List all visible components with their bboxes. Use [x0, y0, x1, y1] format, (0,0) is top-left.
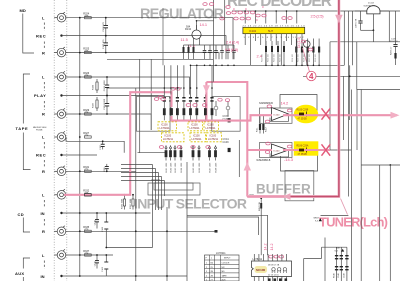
junction bus 52.6 — [79, 52, 81, 54]
resistor R139 — [93, 97, 99, 111]
resistor R109 — [262, 115, 267, 133]
IC100 label box row2 c3 — [207, 133, 222, 142]
resistor R329 476 — [83, 109, 91, 115]
junction bus y65 x204.5 — [204, 65, 206, 67]
resistor R138 — [93, 79, 99, 93]
svg-text:R162 1006: R162 1006 — [170, 162, 172, 173]
wire CD IN node — [62, 212, 151, 214]
junction bus y65 x222 — [221, 65, 223, 67]
junction x135.8 y231.3 — [135, 230, 137, 232]
svg-text:47 35/3B: 47 35/3B — [298, 119, 308, 121]
resistor body col 205 over pink — [204, 108, 207, 115]
resistor R136 — [122, 194, 126, 210]
svg-text:LC78211: LC78211 — [160, 127, 171, 130]
svg-text:14.2: 14.2 — [281, 101, 289, 106]
measure oval 25 — [265, 120, 269, 123]
IC100 label box row1 c3 — [204, 122, 219, 131]
tuner path halo — [247, 0, 339, 197]
IC102 pin wire 11 — [296, 34, 298, 41]
svg-text:MHCE01 5E04: MHCE01 5E04 — [33, 127, 47, 129]
measure oval 8 — [256, 14, 260, 17]
svg-text:R112: R112 — [266, 126, 268, 132]
capacitor C115 — [226, 45, 230, 59]
measure oval 5 — [234, 17, 238, 20]
circled number 4 — [307, 71, 316, 81]
IC102 pin wire 5 — [265, 34, 267, 41]
junction y11 x286 — [286, 10, 288, 12]
resistor array top R151 — [163, 95, 166, 121]
wire route vert x158.5 — [158, 173, 160, 211]
highlighted path CD L signal (wire) — [64, 92, 172, 195]
svg-text:-14.3: -14.3 — [284, 157, 293, 162]
svg-text:C107 470: C107 470 — [103, 39, 105, 49]
junction y11 x245 — [244, 10, 246, 12]
resistor array top R155 — [189, 95, 192, 121]
IC102 pin long wire 5 — [265, 41, 267, 65]
bracket AUX — [23, 258, 30, 281]
wire route y176.5 — [121, 176, 162, 178]
svg-text:C106 470: C106 470 — [103, 21, 105, 31]
svg-text:C137: C137 — [391, 39, 397, 41]
capacitor C124 1008 — [104, 95, 109, 115]
IC101 pin top 1 — [253, 254, 255, 261]
svg-text:REC DECODER: REC DECODER — [227, 0, 332, 10]
connector strip dotted line left — [53, 0, 55, 281]
svg-text:IC100: IC100 — [207, 124, 214, 127]
measure oval 26 — [266, 142, 270, 145]
wire vertical bus x80 — [79, 18, 81, 276]
resistor R325 476 — [83, 48, 91, 54]
blob under IC101 2 — [274, 278, 277, 281]
svg-text:R138: R138 — [93, 84, 95, 90]
svg-text:REC: REC — [36, 34, 46, 39]
capacitor C107 470 — [103, 35, 108, 54]
junction TAPE PLAY node — [60, 94, 62, 96]
highlighted mute box edge (wire) — [206, 82, 247, 197]
resistor array top R153 — [176, 95, 179, 121]
arrowhead output right — [391, 112, 400, 119]
svg-text:TAPE: TAPE — [222, 274, 228, 277]
resistor array top R154 — [182, 95, 185, 121]
svg-text:R: R — [42, 169, 45, 174]
op-amp U1 feedback loop upper — [280, 95, 317, 116]
junction TAPE REC node — [60, 154, 62, 156]
measure oval 19 — [159, 146, 163, 149]
wire vert x167 — [166, 207, 168, 281]
svg-text:C141: C141 — [102, 266, 104, 272]
IC101 pin bottom 4 — [267, 277, 269, 281]
highlighted path op-amp U1 output (wire) — [283, 114, 397, 116]
svg-text:R134: R134 — [185, 28, 192, 31]
wire array col x164.3 up — [163, 65, 165, 94]
measure oval 2 — [238, 11, 242, 14]
wire horiz y266.9 — [304, 258, 322, 260]
svg-text:R165 1006: R165 1006 — [193, 162, 195, 173]
svg-text:R164 1006: R164 1006 — [181, 162, 183, 173]
IC100 label box row2 c2 — [190, 133, 206, 142]
wire TAPE PLAY node — [62, 95, 165, 97]
wire route vert x164.5 — [164, 181, 166, 197]
wire TAPE PLAY L — [66, 77, 190, 95]
resistor R142 — [271, 41, 273, 65]
wire route y180.5 — [121, 180, 165, 182]
IC102 top pin wire 24 — [244, 11, 246, 24]
capacitor C117 470 — [100, 140, 105, 149]
transistor Q104 — [185, 25, 201, 45]
junction MD REC node — [60, 34, 62, 36]
svg-text:11.5: 11.5 — [181, 37, 188, 42]
wire horiz y180 — [151, 179, 160, 181]
capacitor C119 470 — [104, 164, 109, 172]
wire MD L — [66, 18, 233, 60]
wire horiz y20.8 — [197, 20, 214, 22]
svg-text:MD: MD — [222, 271, 226, 273]
junction AUX IN node — [60, 275, 62, 277]
wire vert rail 5 — [349, 65, 351, 120]
resistor R337 476 — [83, 250, 91, 256]
svg-text:R137 1006: R137 1006 — [130, 198, 132, 209]
resistor array mid R161 — [165, 145, 168, 172]
junction y11 x256 — [255, 10, 257, 12]
junction array col x177.4 — [177, 87, 179, 89]
capacitor C138 470 — [94, 212, 99, 228]
svg-text:C121 1008: C121 1008 — [104, 80, 106, 91]
measure oval 9 — [262, 14, 266, 17]
highlighted path light segment y196.5 — [247, 195, 284, 197]
IC101 pin top 8 — [286, 254, 288, 261]
svg-text:2C113: 2C113 — [368, 3, 375, 5]
wire vert x224.7 from top — [224, 0, 226, 45]
op-amp U1 feedback loop lower — [270, 115, 289, 121]
resistor R13x x183.5 — [183, 45, 185, 59]
wire horiz y247.5 — [106, 247, 152, 249]
dashed tie 4 — [43, 101, 45, 110]
dashed tie 1 — [43, 23, 45, 32]
svg-text:R167 1006: R167 1006 — [209, 162, 211, 173]
resistor R327 476 — [83, 132, 91, 138]
wire horiz y59.3 — [107, 58, 213, 60]
svg-text:C149: C149 — [344, 273, 346, 278]
svg-text:14 (2.4): 14 (2.4) — [297, 37, 301, 48]
junction bus y65 x296.3 — [296, 65, 298, 67]
svg-text:R122 100: R122 100 — [274, 54, 276, 62]
wire horiz y41.8 — [330, 41, 400, 43]
measure oval 22 — [206, 146, 210, 149]
IC101 pin top 6 — [276, 254, 278, 261]
X mark upper — [322, 108, 331, 119]
resistor array top R152 — [169, 95, 172, 121]
svg-text:LC78211: LC78211 — [190, 127, 201, 130]
IC101 pin top 4 — [267, 254, 269, 261]
svg-text:R: R — [42, 229, 45, 234]
selector sub box A — [148, 183, 200, 195]
measure oval 12 — [186, 104, 190, 107]
svg-text:LC78211: LC78211 — [192, 138, 203, 141]
bracket MD — [23, 14, 34, 54]
IC101 pin bottom 5 — [272, 277, 274, 281]
transistor Q107 — [304, 41, 311, 48]
resistor R127 — [318, 39, 320, 66]
wire route vert x161.5 — [161, 177, 163, 211]
op-amp U2 NJM2068D-B lower — [257, 144, 289, 162]
op IC102 regulator (yellow) — [243, 27, 305, 33]
tuner callout line — [341, 199, 348, 215]
dashed tie 3 — [43, 82, 45, 91]
svg-text:IC100: IC100 — [193, 135, 200, 138]
measure oval q107 a — [301, 40, 305, 43]
resistor R326 476 — [83, 72, 91, 78]
dashed tie 2 — [43, 42, 45, 50]
highlighted path op-amp U2 output (wire) — [283, 149, 330, 151]
svg-text:C119: C119 — [104, 166, 106, 172]
svg-text:R166 1006: R166 1006 — [199, 162, 201, 173]
wire horiz y64.8 main bus — [190, 64, 344, 66]
wire array col x183.9 up — [183, 65, 185, 94]
capacitor C487 — [356, 11, 375, 42]
svg-text:4.8 (4.8): 4.8 (4.8) — [225, 47, 239, 52]
ground marker WB27 — [314, 218, 323, 223]
IC100 label box row1 c1 — [158, 122, 177, 131]
resistor array mid R164 — [180, 145, 183, 172]
IC102 pin wire 8 — [280, 34, 282, 41]
resistor R335 476 — [83, 226, 91, 232]
arrowhead tuner down — [335, 15, 343, 23]
svg-text:L: L — [42, 15, 45, 20]
measure oval extra 5 — [209, 3, 213, 6]
svg-text:R121 100: R121 100 — [268, 54, 270, 62]
junction bus y65 x272 — [271, 65, 273, 67]
capacitor C116 — [232, 45, 236, 59]
jack MD R — [54, 47, 66, 57]
op-amp U1 NJM2068D-B upper — [259, 103, 289, 121]
wire vert x239.3 selector right — [238, 140, 240, 177]
junction x167 y276 — [166, 275, 168, 277]
jack MD L — [54, 12, 66, 22]
IC102 top pin wire 14 — [296, 11, 298, 24]
R106 C298 network — [297, 145, 309, 157]
junction bus y65 x302 — [301, 65, 303, 67]
IC102 top pin wire 22 — [255, 11, 257, 24]
jack TAPE PLAY R — [54, 108, 66, 118]
svg-text:R: R — [42, 50, 45, 55]
measure oval 30 — [274, 255, 278, 258]
wire array col x212.0 up — [211, 65, 213, 94]
svg-text:R105 C299: R105 C299 — [297, 110, 309, 112]
svg-text:NJM2068D-B: NJM2068D-B — [259, 103, 273, 105]
IC102 pin wire 10 — [291, 34, 293, 45]
IC101 pin bottom 1 — [253, 277, 255, 281]
svg-text:R123 100: R123 100 — [280, 54, 282, 62]
measure oval 27 — [287, 145, 291, 148]
resistor body col 171 over pink — [170, 108, 173, 115]
svg-text:L: L — [42, 75, 45, 80]
measure oval extra 6 — [282, 17, 286, 20]
svg-text:R126 100: R126 100 — [304, 54, 306, 62]
callout line circle 4 — [303, 48, 310, 72]
resistor R124 — [301, 39, 303, 66]
svg-text:12 13 14 15: 12 13 14 15 — [268, 275, 279, 277]
svg-text:IC100: IC100 — [191, 124, 198, 127]
connector strip dotted line right — [66, 0, 68, 281]
IC102 pin wire 1 — [244, 34, 246, 45]
measure oval 29 — [269, 255, 273, 258]
junction bus 255 — [79, 254, 81, 256]
IC102 top pin wire 20 — [265, 11, 267, 24]
capacitor C148 — [338, 247, 343, 281]
resistor R126 — [312, 39, 314, 66]
wire TAPE REC node — [62, 154, 98, 156]
wire vert x325 bottom — [324, 238, 326, 281]
measure oval 32 — [158, 95, 162, 98]
wire route y168.5 — [121, 168, 156, 170]
junction array col x170.9 — [170, 87, 172, 89]
wire route vert x155.5 — [155, 169, 157, 211]
resistor array top R158 — [210, 95, 213, 121]
IC101 pin top 5 — [272, 254, 274, 261]
svg-text:C487 1YR: C487 1YR — [356, 18, 358, 28]
junction x135.8 y213 — [135, 212, 137, 214]
highlighted mute box path (wire) — [205, 82, 207, 120]
resistor RA1 — [272, 268, 275, 273]
jack TAPE REC L — [54, 131, 66, 141]
measure oval 4 — [250, 11, 254, 14]
capacitor C108 — [223, 115, 231, 122]
IC102 pin long wire 11 — [296, 41, 298, 65]
junction bus y65 x210 — [209, 65, 211, 67]
wire vert x303.7 — [303, 259, 305, 281]
svg-text:IC100: IC100 — [274, 115, 281, 117]
resistor R201 — [250, 194, 262, 198]
wire transistor collector bus — [184, 44, 197, 46]
svg-text:WB27: WB27 — [314, 218, 320, 220]
junction bus y65 x228 — [227, 65, 229, 67]
IC102 pin wire 7 — [275, 34, 277, 45]
svg-text:R125 100: R125 100 — [298, 54, 300, 62]
svg-text:R163 1006: R163 1006 — [175, 162, 177, 173]
measure oval extra 4 — [203, 3, 207, 6]
transistor Q107 stub — [306, 47, 308, 65]
svg-text:2.4 (2.4): 2.4 (2.4) — [226, 40, 240, 45]
resistor array top R157 — [204, 95, 207, 121]
wire route y172.5 — [121, 172, 159, 174]
svg-text:5HT: 5HT — [268, 29, 273, 33]
svg-text:R128 100: R128 100 — [315, 54, 317, 62]
svg-text:R299 4.7: R299 4.7 — [391, 46, 393, 55]
resistor R106 body over pink — [299, 149, 304, 152]
component end CD R — [215, 230, 218, 233]
wire transistor top stub — [196, 21, 198, 30]
svg-text:REGULATOR: REGULATOR — [140, 7, 225, 23]
ground marker triangle — [335, 248, 345, 253]
wire vert rail 12 — [395, 11, 397, 42]
transistor Q115 — [214, 101, 218, 116]
bracket TAPE — [23, 74, 30, 170]
dashed tie 5 — [43, 142, 45, 150]
junction bus y65 x319.1 — [318, 65, 320, 67]
IC102 pin wire 6 — [270, 34, 272, 41]
measure oval 6 — [240, 17, 244, 20]
wire top horiz y11 — [232, 10, 400, 12]
resistor R331 476 — [83, 166, 91, 172]
capacitor R148 — [333, 247, 338, 281]
junction bus 276 — [79, 275, 81, 277]
IC101 pin bottom 8 — [286, 277, 288, 281]
svg-text:14.2: 14.2 — [264, 244, 268, 251]
measure oval 18 — [225, 99, 229, 102]
capacitor C121 1008 — [104, 76, 109, 96]
wire vert x187 — [186, 162, 188, 281]
X mark lower — [322, 144, 331, 155]
measure oval 28 — [265, 151, 269, 154]
jack CD R — [54, 226, 66, 236]
svg-text:IC102: IC102 — [249, 29, 257, 33]
jack CD L — [54, 189, 66, 199]
svg-text:LC78211: LC78211 — [206, 127, 217, 130]
wire horiz y152.7 — [138, 152, 168, 154]
wire vert rail 10 — [379, 165, 381, 281]
IC102 pin wire 9 — [286, 34, 288, 41]
junction x106.3 y247.5 — [105, 247, 107, 249]
mute block box upper — [212, 97, 240, 132]
svg-text:0: 0 — [256, 18, 258, 22]
dashed tie 7 — [43, 200, 45, 208]
junction bus y65 x234 — [233, 65, 235, 67]
junction y11 x266 — [265, 10, 267, 12]
junction bus 171.3 — [79, 170, 81, 172]
wire to IC101 b — [187, 215, 268, 255]
jack TAPE PLAY L — [54, 71, 66, 81]
tuner path (wire) — [247, 0, 339, 197]
measure oval 1 — [232, 11, 236, 14]
svg-text:R136 1006: R136 1006 — [122, 198, 124, 209]
resistor array mid R165 — [192, 145, 195, 172]
capacitor C111 — [203, 45, 207, 59]
measure oval 21 — [191, 146, 195, 149]
IC101 pin bottom 2 — [258, 277, 260, 281]
junction bus y65 x284 — [283, 65, 285, 67]
capacitor C106 470 — [103, 17, 108, 37]
svg-text:9-3: 9-3 — [335, 251, 339, 253]
measure oval 10 — [154, 98, 158, 101]
arrowhead mute down — [203, 85, 210, 93]
junction bus y65 x266 — [265, 65, 267, 67]
svg-text:L: L — [42, 135, 45, 140]
svg-text:C139: C139 — [94, 260, 96, 266]
capacitor C113 — [214, 45, 218, 59]
svg-text:TAPE: TAPE — [16, 126, 29, 131]
wire to IC101 c — [187, 217, 259, 235]
capacitor C149 — [344, 247, 349, 281]
junction bus y65 x196.8 — [196, 65, 198, 67]
wire vert x135.8 — [135, 88, 137, 281]
svg-text:R: R — [42, 112, 45, 117]
svg-text:R106 C29A: R106 C29A — [297, 145, 309, 148]
junction bus y65 x190.5 — [190, 65, 192, 67]
yellow highlight lower R106/C298 — [294, 141, 319, 155]
wire vert x213.6 from top — [213, 0, 215, 82]
measure oval 24 — [287, 109, 291, 112]
dashed tie 8 — [43, 219, 45, 227]
junction bus 231.3 — [79, 230, 81, 232]
wire caps cluster top — [205, 44, 235, 46]
measure oval 17 — [218, 98, 222, 101]
jack TAPE REC R — [54, 166, 66, 176]
wire route y164.5 — [121, 164, 153, 166]
blob under IC101 3 — [279, 278, 282, 281]
IC102 pin long wire 8 — [280, 41, 282, 65]
svg-text:R111: R111 — [257, 127, 259, 132]
IC101 pin bottom 7 — [281, 277, 283, 281]
